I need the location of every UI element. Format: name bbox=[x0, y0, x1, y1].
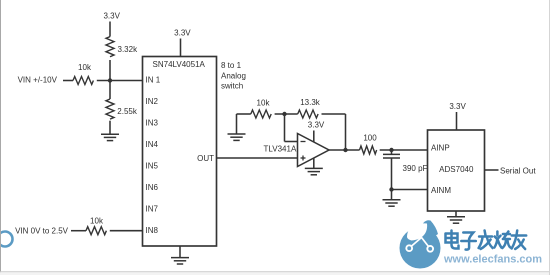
watermark bottom-left circle fragment bbox=[0, 232, 13, 247]
svg-text:IN7: IN7 bbox=[146, 204, 159, 213]
wire 10k to chip IN8 bbox=[110, 230, 143, 232]
watermark elecfans logo circle bbox=[400, 220, 441, 268]
wire AINM bbox=[392, 189, 428, 191]
svg-text:3.3V: 3.3V bbox=[308, 120, 325, 129]
ADS7040 box bbox=[428, 130, 485, 211]
svg-text:IN5: IN5 bbox=[146, 161, 159, 170]
op-amp + sign bbox=[301, 157, 306, 159]
serial out wire bbox=[485, 169, 499, 171]
wire 100R to AINP bbox=[380, 149, 428, 151]
junction node op-amp output/feedback bbox=[343, 148, 347, 152]
resistor 3.32k bbox=[106, 37, 114, 57]
ground below 2.55k bbox=[101, 134, 119, 140]
junction node feedback/inverting input bbox=[282, 112, 286, 116]
wire 13.3k right bbox=[322, 113, 346, 115]
char 友 bbox=[512, 231, 527, 250]
power 3.3V stem (left divider) bbox=[109, 22, 111, 37]
junction node AINP/cap top bbox=[389, 148, 393, 152]
wire 2.55k to ground bbox=[109, 121, 111, 135]
svg-text:IN6: IN6 bbox=[146, 183, 159, 192]
svg-text:3.3V: 3.3V bbox=[103, 12, 120, 21]
svg-text:VIN +/-10V: VIN +/-10V bbox=[18, 75, 58, 84]
op-amp - sign bbox=[301, 141, 306, 143]
wire op-amp out to 100R bbox=[329, 149, 360, 151]
char 发 bbox=[479, 231, 493, 250]
svg-text:TLV341A: TLV341A bbox=[264, 144, 297, 153]
char 子 bbox=[461, 233, 476, 250]
svg-text:Analog: Analog bbox=[221, 71, 246, 80]
resistor 2.55k bbox=[106, 99, 114, 119]
svg-text:IN3: IN3 bbox=[146, 118, 159, 127]
op-amp ground stem bbox=[313, 158, 315, 168]
svg-text:AINM: AINM bbox=[431, 186, 451, 195]
op-amp TLV341A triangle bbox=[298, 134, 330, 167]
svg-text:13.3k: 13.3k bbox=[300, 98, 321, 107]
svg-text:10k: 10k bbox=[78, 63, 92, 72]
char 电 bbox=[446, 231, 459, 249]
ground below mux bbox=[171, 258, 189, 264]
svg-text:AINP: AINP bbox=[431, 144, 450, 153]
svg-text:Serial Out: Serial Out bbox=[500, 166, 536, 175]
wire 10k to chip IN1 bbox=[97, 80, 143, 82]
wire junction to 2.55k bbox=[109, 81, 111, 100]
wire fb ground to 10k bbox=[237, 113, 251, 115]
ADS 3.3V stem bbox=[456, 112, 458, 130]
char 烧 bbox=[494, 232, 510, 249]
wire OUT to op-amp + input bbox=[217, 157, 298, 159]
wire 10k to 13.3k through node bbox=[275, 113, 298, 115]
ADS ground stem bbox=[455, 211, 457, 217]
wire into - input bbox=[285, 141, 298, 143]
svg-text:8 to 1: 8 to 1 bbox=[221, 61, 242, 70]
wire VIN 0-2.5V to 10k bbox=[71, 230, 86, 232]
ground ADS7040 bbox=[447, 217, 465, 223]
capacitor 390 pF bottom stem to AINM node bbox=[391, 158, 393, 190]
svg-text:IN2: IN2 bbox=[146, 97, 159, 106]
svg-text:www.elecfans.com: www.elecfans.com bbox=[443, 254, 542, 266]
svg-text:IN 1: IN 1 bbox=[146, 75, 161, 84]
ground op-amp bbox=[305, 168, 323, 174]
svg-text:OUT: OUT bbox=[197, 154, 214, 163]
svg-text:3.3V: 3.3V bbox=[174, 29, 191, 38]
capacitor 390 pF top stem bbox=[391, 150, 393, 154]
fb ground stem bbox=[236, 114, 238, 134]
mux SN74LV4051A box bbox=[143, 57, 217, 247]
resistor 100 bbox=[360, 146, 377, 154]
ground stem below mux bbox=[179, 246, 181, 258]
junction node divider/IN1 bbox=[108, 78, 112, 82]
junction node AINM/cap bottom bbox=[389, 187, 393, 191]
watermark chinese text 电子发烧友 (approximated strokes) bbox=[446, 231, 527, 250]
resistor 10k bottom-left bbox=[86, 227, 106, 235]
AINM ground stem bbox=[391, 190, 393, 200]
ground feedback 10k bbox=[228, 134, 246, 140]
svg-text:3.32k: 3.32k bbox=[118, 45, 139, 54]
svg-text:2.55k: 2.55k bbox=[117, 107, 138, 116]
capacitor 390 pF plates bbox=[383, 153, 400, 155]
ground cap/AINM bbox=[383, 200, 401, 206]
svg-text:IN8: IN8 bbox=[146, 226, 159, 235]
svg-text:VIN 0V to 2.5V: VIN 0V to 2.5V bbox=[15, 227, 69, 236]
svg-text:390 pF: 390 pF bbox=[403, 164, 428, 173]
svg-text:10k: 10k bbox=[257, 98, 271, 107]
svg-text:SN74LV4051A: SN74LV4051A bbox=[153, 60, 206, 69]
svg-text:switch: switch bbox=[221, 82, 243, 91]
svg-text:ADS7040: ADS7040 bbox=[439, 165, 474, 174]
wire fb down to output node bbox=[345, 114, 347, 150]
wire 3.32k to junction bbox=[109, 60, 111, 81]
svg-text:10k: 10k bbox=[90, 216, 104, 225]
wire node down to - input bbox=[284, 114, 286, 142]
svg-text:3.3V: 3.3V bbox=[449, 102, 466, 111]
page frame lines bbox=[0, 0, 2, 275]
wire VIN+/-10V to 10k R bbox=[63, 80, 73, 82]
resistor 10k top-left bbox=[73, 77, 93, 85]
svg-text:100: 100 bbox=[363, 133, 377, 142]
svg-text:IN4: IN4 bbox=[146, 140, 159, 149]
op-amp 3.3V stem bbox=[313, 131, 315, 143]
power 3.3V stem (mux) bbox=[180, 39, 182, 58]
resistor 10k feedback bbox=[251, 110, 271, 118]
resistor 13.3k bbox=[298, 110, 318, 118]
